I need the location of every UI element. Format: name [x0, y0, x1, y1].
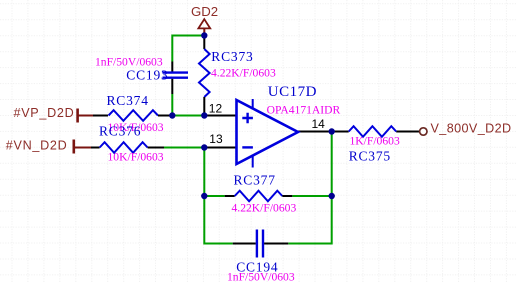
wire: output node to RC375 [332, 131, 349, 133]
resistor RC374 10K/F/0603 [107, 93, 173, 134]
junction RC377 left node [201, 193, 207, 199]
port #VP_D2D [14, 106, 78, 122]
capacitor CC194 1nF/50V/0603 [227, 230, 295, 282]
svg-text:RC374: RC374 [107, 93, 149, 108]
svg-text:RC373: RC373 [211, 49, 253, 64]
wire: node 12 horizontal (RC374 out to pin 12) [172, 115, 204, 117]
svg-text:13: 13 [209, 132, 223, 146]
wire: feedback right vertical (output node down to CC194 row) [288, 132, 331, 244]
svg-text:1K/F/0603: 1K/F/0603 [350, 134, 400, 147]
junction GD2 node [201, 32, 207, 38]
wire: RC375 to output terminal [396, 131, 419, 133]
wire: top node horizontal (GD2 node to CC193 top) [172, 35, 204, 37]
resistor RC373 4.22K/F/0603 [199, 36, 276, 116]
svg-text:GD2: GD2 [191, 4, 218, 19]
svg-text:#VN_D2D: #VN_D2D [6, 139, 68, 153]
svg-text:OPA4171AIDR: OPA4171AIDR [267, 103, 341, 116]
svg-text:V_800V_D2D: V_800V_D2D [431, 122, 512, 136]
junction RC377 right node [329, 193, 335, 199]
svg-text:#VP_D2D: #VP_D2D [14, 106, 75, 120]
svg-text:1nF/50V/0603: 1nF/50V/0603 [227, 271, 295, 282]
svg-text:14: 14 [312, 117, 326, 131]
wire: #VN_D2D black lead to RC376 [91, 147, 100, 149]
wire: RC377 right lead green [292, 195, 331, 197]
wire: #VN_D2D port stub (dark red) [75, 147, 91, 149]
wire: #VP_D2D port stub (dark red) [79, 115, 94, 117]
wire: #VP_D2D black lead to RC374 [93, 115, 108, 117]
svg-text:12: 12 [209, 101, 223, 115]
wire: output pin 14 to output node [298, 131, 332, 133]
op-amp UC17D OPA4171AIDR [237, 84, 341, 168]
junction node 12 / RC373 bottom [201, 112, 207, 118]
wire: pin 12 black stub [204, 115, 236, 117]
svg-text:1nF/50V/0603: 1nF/50V/0603 [95, 55, 163, 68]
junction node 12 / RC374-CC193 [169, 112, 175, 118]
svg-text:RC376: RC376 [99, 124, 141, 139]
wire: GD2 stub down to top node [203, 29, 205, 36]
svg-text:4.22K/F/0603: 4.22K/F/0603 [232, 202, 297, 215]
wire: RC377 left lead green [204, 195, 224, 197]
junction output node [329, 128, 335, 134]
svg-text:RC375: RC375 [349, 149, 391, 164]
wire: CC193 branch vertical (green parts) [171, 35, 173, 116]
wire: RC376 out to node 13 [164, 147, 204, 149]
resistor RC376 10K/F/0603 [99, 124, 164, 164]
svg-text:4.22K/F/0603: 4.22K/F/0603 [211, 66, 276, 79]
port #VN_D2D [6, 139, 74, 154]
capacitor CC193 1nF/50V/0603 [95, 55, 188, 94]
junction node 13 [201, 144, 207, 150]
svg-text:CC193: CC193 [126, 68, 168, 83]
resistor RC375 1K/F/0603 [349, 126, 400, 163]
resistor RC377 4.22K/F/0603 [225, 172, 297, 214]
power symbol GD2 [191, 4, 218, 28]
output terminal V_800V_D2D [420, 122, 512, 136]
wire: feedback left vertical (node 13 down to CC194 row) [204, 148, 232, 244]
svg-text:RC377: RC377 [234, 172, 276, 187]
svg-text:10K/F/0603: 10K/F/0603 [108, 150, 164, 163]
wire: pin 13 black stub [204, 147, 236, 149]
svg-text:UC17D: UC17D [268, 84, 317, 100]
